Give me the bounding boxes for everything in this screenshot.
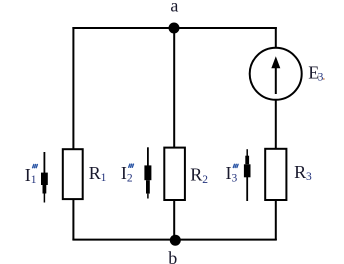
resistor R2 bbox=[164, 148, 185, 200]
label R1 bbox=[89, 163, 107, 184]
wire middle vertical lower bbox=[173, 200, 175, 240]
svg-text:1: 1 bbox=[101, 172, 107, 184]
wire right vertical middle bbox=[275, 100, 277, 149]
wire right vertical upper bbox=[275, 27, 277, 49]
svg-text:1: 1 bbox=[31, 174, 37, 186]
wire middle vertical upper bbox=[173, 28, 175, 148]
svg-text:R: R bbox=[294, 162, 306, 182]
label I2 bbox=[121, 163, 134, 184]
label R3 bbox=[294, 162, 312, 183]
svg-text:3: 3 bbox=[306, 171, 312, 183]
svg-text:R: R bbox=[190, 165, 202, 185]
source E3 bbox=[250, 48, 302, 100]
label I3 bbox=[226, 163, 239, 184]
svg-text:3: 3 bbox=[232, 172, 238, 184]
wire right vertical lower bbox=[275, 200, 277, 240]
current arrow I1 (down) bbox=[43, 152, 45, 203]
resistor R3 bbox=[265, 149, 286, 200]
svg-text:2: 2 bbox=[202, 174, 208, 186]
label E3 bbox=[308, 63, 325, 84]
current arrow I3 (up) bbox=[246, 149, 248, 201]
svg-text:R: R bbox=[89, 163, 101, 183]
node a bbox=[169, 23, 180, 34]
wire left vertical lower bbox=[72, 199, 74, 240]
label R2 bbox=[190, 165, 208, 186]
wire bottom horizontal b-rail bbox=[72, 239, 276, 241]
resistor R1 bbox=[63, 149, 83, 199]
svg-text:a: a bbox=[170, 0, 178, 16]
svg-text:2: 2 bbox=[127, 172, 133, 184]
svg-text:3: 3 bbox=[318, 72, 324, 84]
node b bbox=[170, 235, 181, 246]
wire top horizontal a-rail bbox=[72, 27, 276, 29]
current arrow I2 (down) bbox=[147, 147, 149, 198]
svg-text:b: b bbox=[168, 248, 177, 264]
wire left vertical upper bbox=[72, 27, 74, 149]
label I1 bbox=[25, 165, 38, 186]
